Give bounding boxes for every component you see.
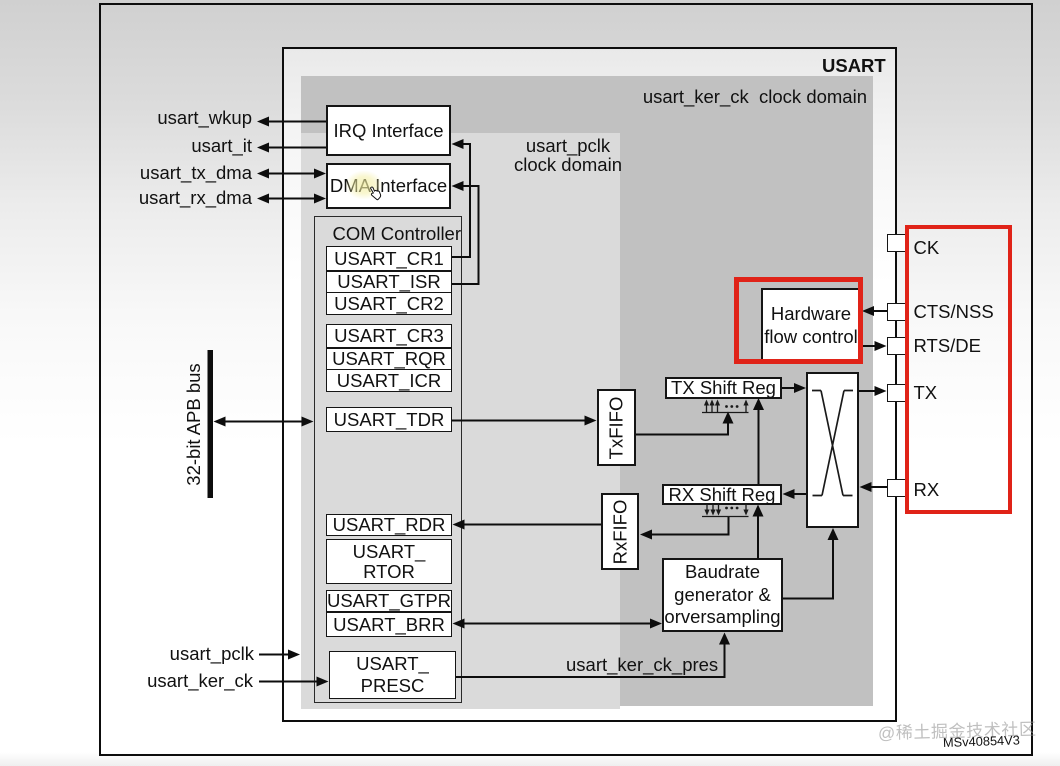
block RxFIFO xyxy=(601,493,639,570)
wire RX cluster to RxFIFO xyxy=(650,517,729,535)
register USART_BRR xyxy=(326,612,452,637)
wire usart_it xyxy=(266,147,326,149)
register USART_RDR xyxy=(326,514,452,536)
TX shift reg bit-arrow cluster xyxy=(702,403,749,413)
arrowhead BRR left xyxy=(453,619,465,629)
arrowhead usart_tx_dma left xyxy=(257,169,269,179)
wire RX pin to switch xyxy=(869,486,887,488)
arrowhead TxFIFO up into cluster xyxy=(723,412,734,424)
arrowhead usart_ker_ck right xyxy=(317,677,329,687)
wire ISR to DMA feedback xyxy=(452,186,479,284)
wire CTS to hw flow control xyxy=(871,310,887,312)
arrowhead RxFIFO into RDR xyxy=(453,520,465,530)
usart_pclk clock domain region xyxy=(301,133,620,709)
arrowhead usart_tx_dma right xyxy=(314,169,326,179)
arrowhead PRESC wire up into baud xyxy=(719,633,730,645)
label COM Controller xyxy=(313,223,461,244)
register USART_ICR xyxy=(326,369,452,392)
pin label RTS/DE xyxy=(914,335,982,356)
wire TDR to TxFIFO xyxy=(452,420,588,422)
wire RxFIFO to RDR xyxy=(462,524,601,526)
pin square CTS/NSS xyxy=(887,303,906,321)
switch X symbol xyxy=(812,391,853,496)
signal label usart_tx_dma xyxy=(102,162,252,183)
arrowhead into DMA right xyxy=(452,181,464,191)
arrowhead hw flow into RTS xyxy=(875,341,887,351)
wire switch to TX pin xyxy=(859,390,878,392)
arrowhead baud into TX Shift Reg xyxy=(753,398,764,410)
register USART_PRESC xyxy=(329,651,456,699)
wire PRESC to baud generator xyxy=(456,642,725,677)
pin square RX xyxy=(887,479,906,497)
bus bar 32-bit APB xyxy=(208,350,214,498)
register USART_CR3 xyxy=(326,324,452,348)
register USART_GTPR xyxy=(326,590,452,612)
red highlight pins xyxy=(905,225,1013,514)
signal label usart_ker_ck_pres xyxy=(566,654,718,675)
bus label 32-bit APB bus xyxy=(183,362,204,487)
red highlight hardware flow control xyxy=(734,277,863,364)
pin label CTS/NSS xyxy=(914,301,994,322)
RX shift reg bit-arrow cluster xyxy=(702,505,749,517)
arrowhead into baud generator left xyxy=(650,619,662,629)
arrowhead usart_pclk right xyxy=(288,650,300,660)
label usart_pclk clock domain xyxy=(493,136,643,175)
block Baudrate generator & orversampling xyxy=(662,558,783,632)
arrowhead CTS into hw flow xyxy=(862,306,874,316)
pin label RX xyxy=(914,479,940,500)
watermark xyxy=(878,718,1037,743)
wire TxFIFO to TX shift cluster xyxy=(636,422,728,435)
block DMA Interface xyxy=(326,163,451,209)
USART block outer box xyxy=(282,47,897,722)
register USART_TDR xyxy=(326,407,452,432)
register USART_ISR xyxy=(326,271,452,293)
block TX Shift Reg xyxy=(665,377,782,399)
signal label usart_rx_dma xyxy=(102,187,252,208)
arrowhead TDR into TxFIFO xyxy=(585,416,597,426)
usart_ker_ck clock domain region xyxy=(301,76,873,706)
figure id MSv40854V3 xyxy=(943,729,1021,753)
wire CR1 to IRQ feedback xyxy=(452,144,470,257)
arrowhead APB right into COM xyxy=(302,417,314,427)
arrowhead usart_rx_dma left xyxy=(257,194,269,204)
signal label usart_pclk xyxy=(102,643,254,664)
arrowhead baud up into switch xyxy=(828,528,839,540)
arrowhead into IRQ right xyxy=(452,139,464,149)
arrowhead switch into RX Shift Reg xyxy=(783,489,795,499)
label usart_ker_ck clock domain xyxy=(642,86,867,107)
wire usart_ker_ck xyxy=(259,681,320,683)
wire switch to RX Shift Reg xyxy=(792,493,806,495)
signal label usart_it xyxy=(102,135,252,156)
register USART_RTOR xyxy=(326,539,452,584)
block IRQ Interface xyxy=(326,105,451,156)
arrowhead baud into RX Shift Reg xyxy=(753,505,764,517)
arrowhead usart_wkup left xyxy=(257,117,269,127)
arrowhead RX pin into switch xyxy=(860,482,872,492)
register USART_CR2 xyxy=(326,292,452,315)
cursor hand xyxy=(365,185,385,205)
pin square RTS/DE xyxy=(887,337,906,355)
arrowhead cluster into RxFIFO xyxy=(640,530,652,540)
wire TX Shift Reg to switch xyxy=(782,387,798,389)
signal label usart_wkup xyxy=(102,107,252,128)
block RX Shift Reg xyxy=(662,484,782,505)
pin label TX xyxy=(914,382,938,403)
pin square CK xyxy=(887,234,906,252)
wire usart_pclk xyxy=(259,654,291,656)
wire usart_wkup xyxy=(266,121,326,123)
block TxFIFO xyxy=(597,389,636,466)
wire APB bus double arrow xyxy=(222,421,305,423)
register USART_RQR xyxy=(326,348,452,370)
pin label CK xyxy=(914,237,940,258)
register USART_CR1 xyxy=(326,246,452,271)
wire hw flow control to RTS xyxy=(861,345,879,347)
arrowhead APB left xyxy=(214,417,226,427)
wire usart_rx_dma xyxy=(266,198,317,200)
block Hardware flow control xyxy=(761,288,861,361)
label USART xyxy=(0,54,1,56)
cursor glow xyxy=(337,164,391,206)
arrowhead switch into TX pin xyxy=(875,386,887,396)
signal label usart_ker_ck xyxy=(102,670,253,691)
pin square TX xyxy=(887,384,906,402)
wire baud to RX Shift Reg xyxy=(757,514,759,559)
wire BRR to baud generator xyxy=(462,623,653,625)
wire baud to TX Shift Reg xyxy=(758,408,760,484)
wire baud generator to switch xyxy=(783,537,834,599)
arrowhead usart_rx_dma right xyxy=(314,194,326,204)
wire usart_tx_dma xyxy=(266,173,317,175)
block COM Controller xyxy=(314,216,462,703)
arrowhead TX Shift into switch xyxy=(794,383,806,393)
block pin swap switch xyxy=(806,372,859,528)
arrowhead usart_it left xyxy=(257,143,269,153)
